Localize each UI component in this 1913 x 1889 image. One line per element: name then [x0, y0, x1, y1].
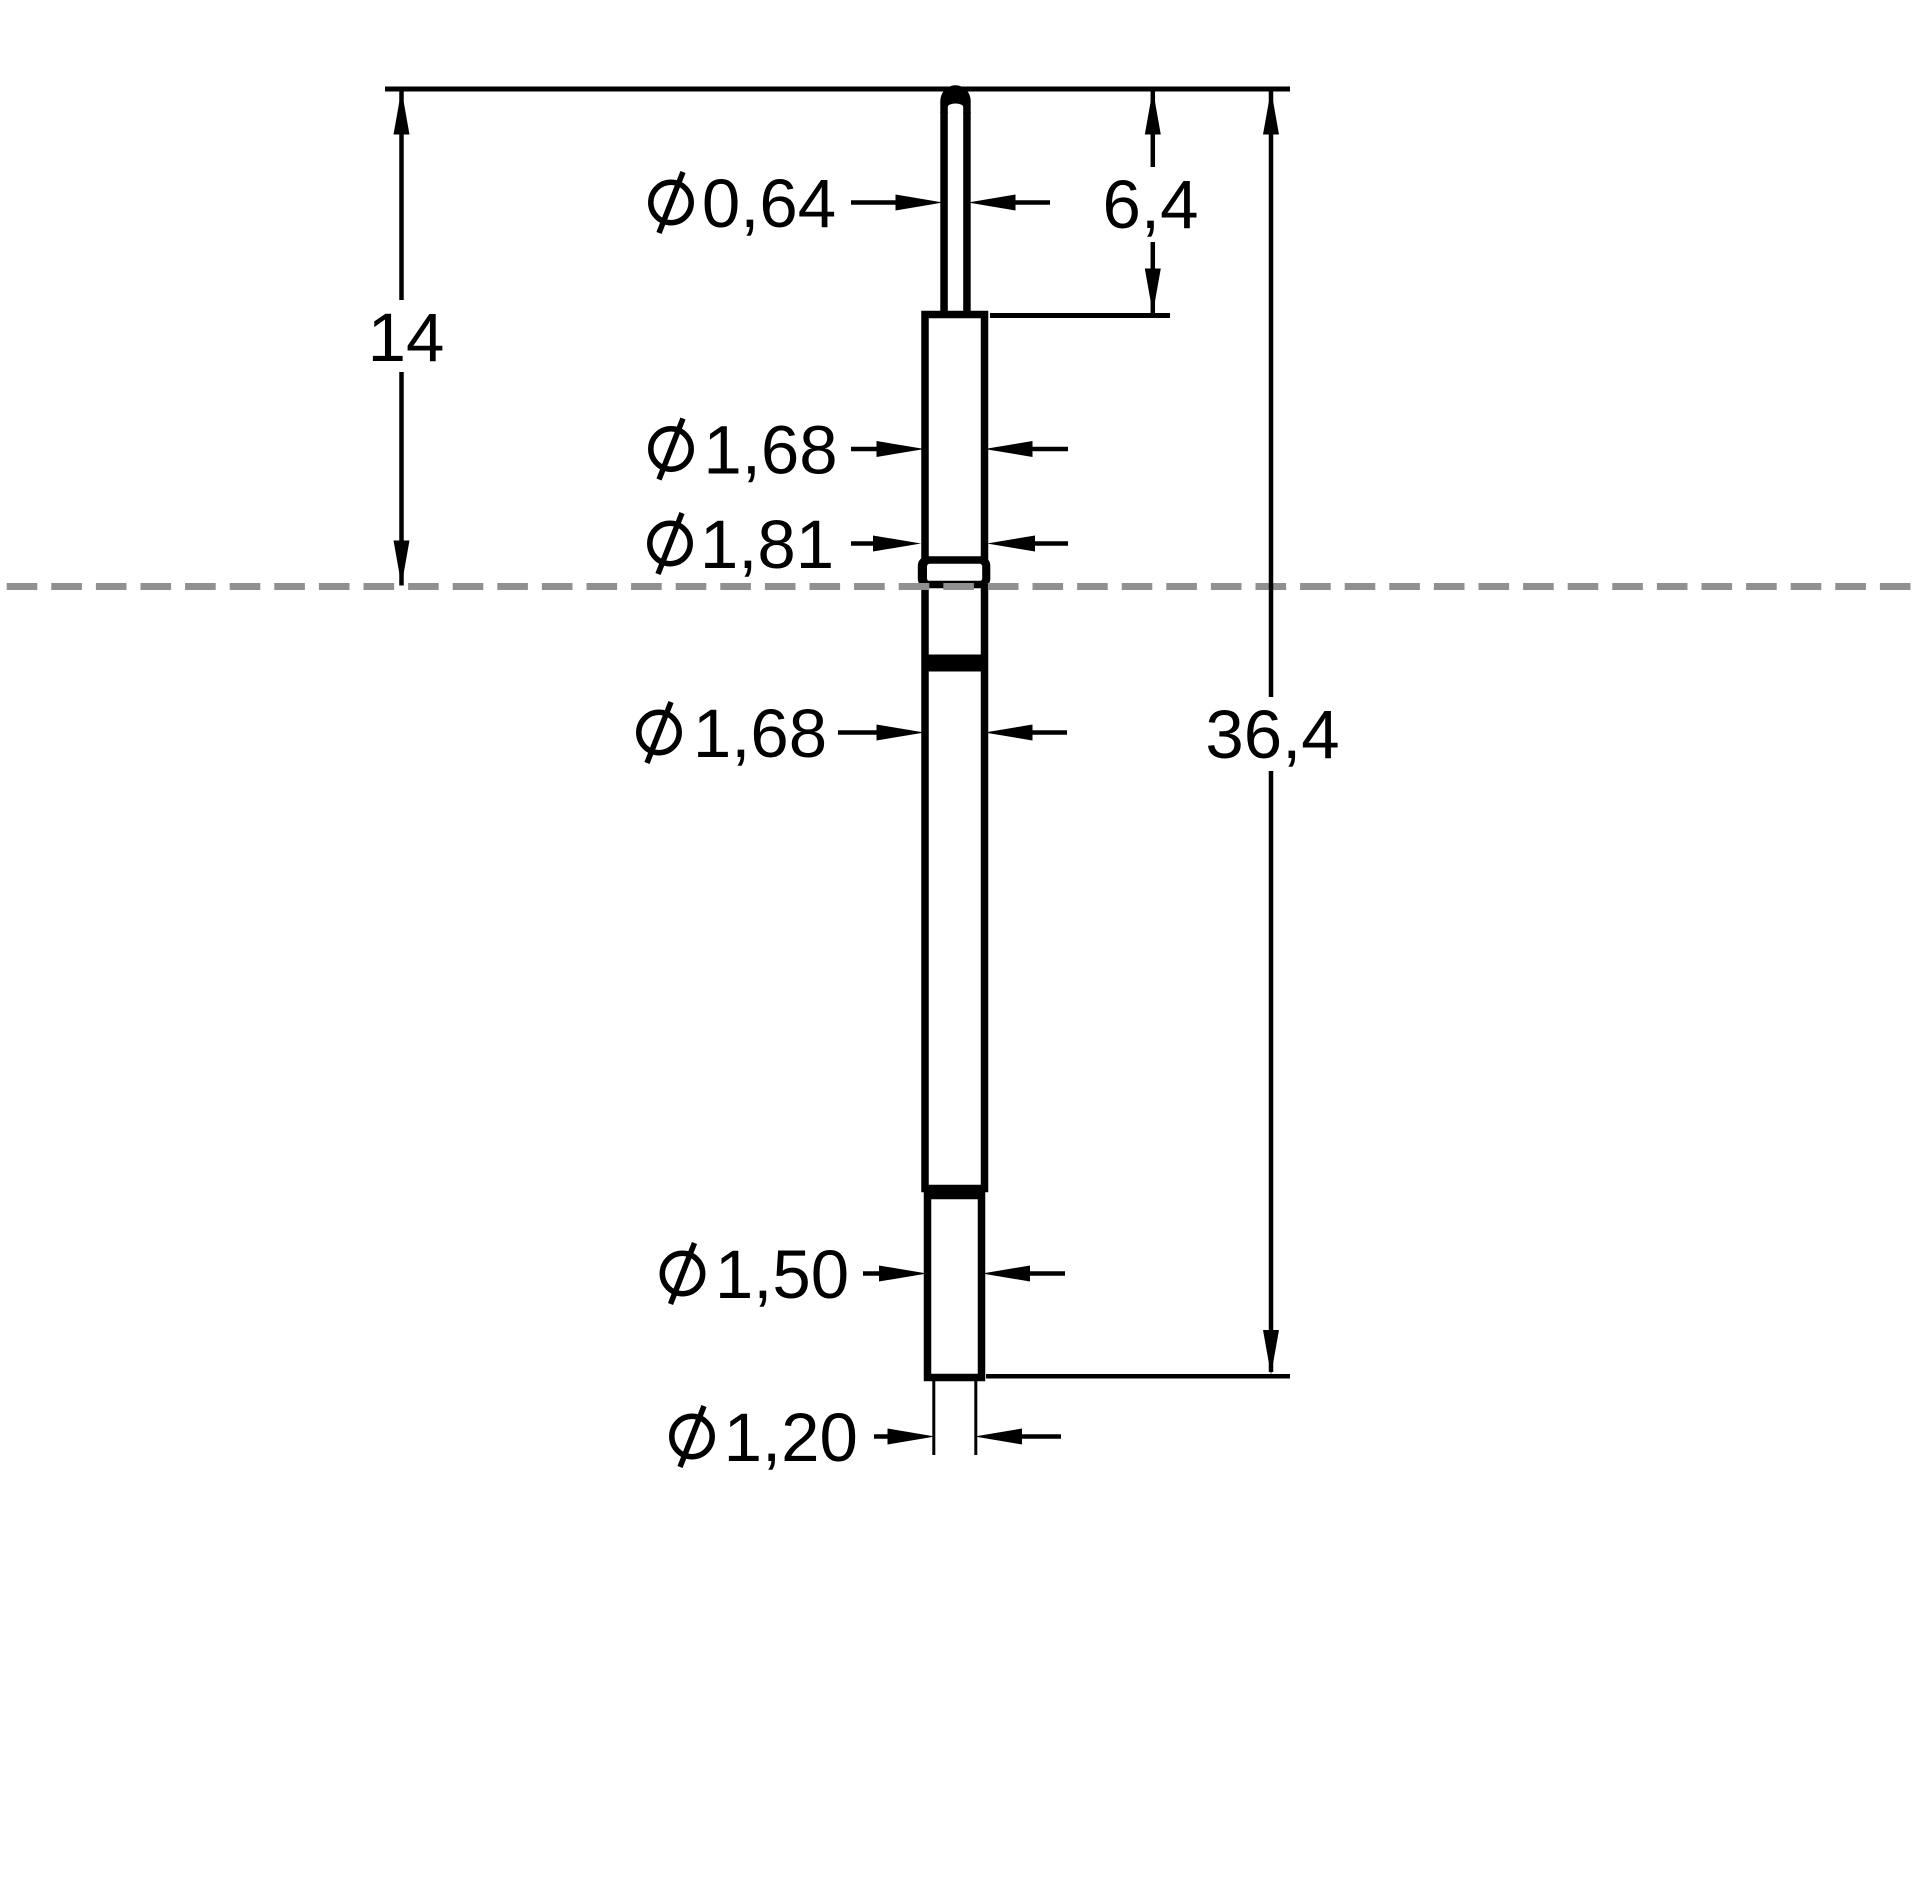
barrel separator band: [922, 655, 989, 672]
label diameter 1,81: right leader: [987, 536, 1035, 552]
label diameter 1,68 upper: right leader: [985, 441, 1033, 457]
svg-text:0,64: 0,64: [702, 165, 836, 242]
svg-text:1,68: 1,68: [693, 695, 827, 772]
dimension 36,4: vertical line: [1269, 92, 1274, 698]
label diameter 1,20: left leader: [874, 1434, 890, 1439]
dimension 14: up arrow: [394, 90, 410, 135]
dimension 36,4: up arrow: [1263, 90, 1279, 135]
label diameter 0,64: left leader: [851, 200, 897, 205]
svg-text:6,4: 6,4: [1103, 166, 1199, 243]
dimension 14: down arrow: [394, 541, 410, 586]
label diameter 1,50: right leader: [982, 1266, 1030, 1282]
lower barrel (diameter 1,68): [925, 585, 985, 1189]
label diameter 1,68 lower: left leader: [838, 730, 878, 735]
probe tip plunger (rounded top cylinder): [940, 85, 970, 113]
label diameter 0,64: symbol: [651, 172, 691, 233]
upper barrel (diameter 1,68): [925, 315, 985, 561]
dimension 6,4: up arrow: [1145, 90, 1161, 135]
gray dashed centre line: [0, 583, 1913, 590]
svg-text:36,4: 36,4: [1205, 696, 1339, 773]
dimension 6,4: vertical line: [1151, 92, 1156, 168]
tail pin left line (diameter 1,20): [932, 1381, 935, 1455]
label diameter 1,50: symbol: [662, 1243, 702, 1304]
label diameter 1,20: right leader: [975, 1429, 1023, 1445]
collar ring (diameter 1,81): [918, 557, 991, 588]
label diameter 1,81: left leader: [851, 541, 875, 546]
svg-text:14: 14: [368, 299, 445, 376]
svg-text:1,50: 1,50: [715, 1236, 849, 1313]
shank section (diameter 1,50): [928, 1196, 982, 1378]
tail pin right line (diameter 1,20): [974, 1381, 977, 1455]
svg-text:1,81: 1,81: [700, 506, 834, 583]
label diameter 1,68 upper: symbol: [651, 419, 691, 480]
dimension 36,4: down arrow: [1263, 1330, 1279, 1375]
label diameter 1,81: symbol: [650, 513, 690, 574]
svg-text:1,20: 1,20: [724, 1399, 858, 1476]
top reference line: [385, 87, 1290, 92]
svg-text:1,68: 1,68: [703, 411, 837, 488]
label diameter 1,68 upper: left leader: [851, 447, 878, 452]
label diameter 1,68 lower: right leader: [985, 725, 1033, 741]
label diameter 1,68 lower: symbol: [639, 702, 679, 763]
label diameter 1,50: left leader: [863, 1271, 881, 1276]
label diameter 0,64: right leader: [968, 195, 1016, 211]
extension line at barrel top for 6,4: [990, 313, 1170, 318]
dimension 6,4: down arrow: [1145, 269, 1161, 314]
extension line at shank bottom for 36,4: [986, 1374, 1290, 1379]
dimension 14: vertical line: [399, 92, 404, 301]
label diameter 1,20: symbol: [672, 1406, 712, 1467]
